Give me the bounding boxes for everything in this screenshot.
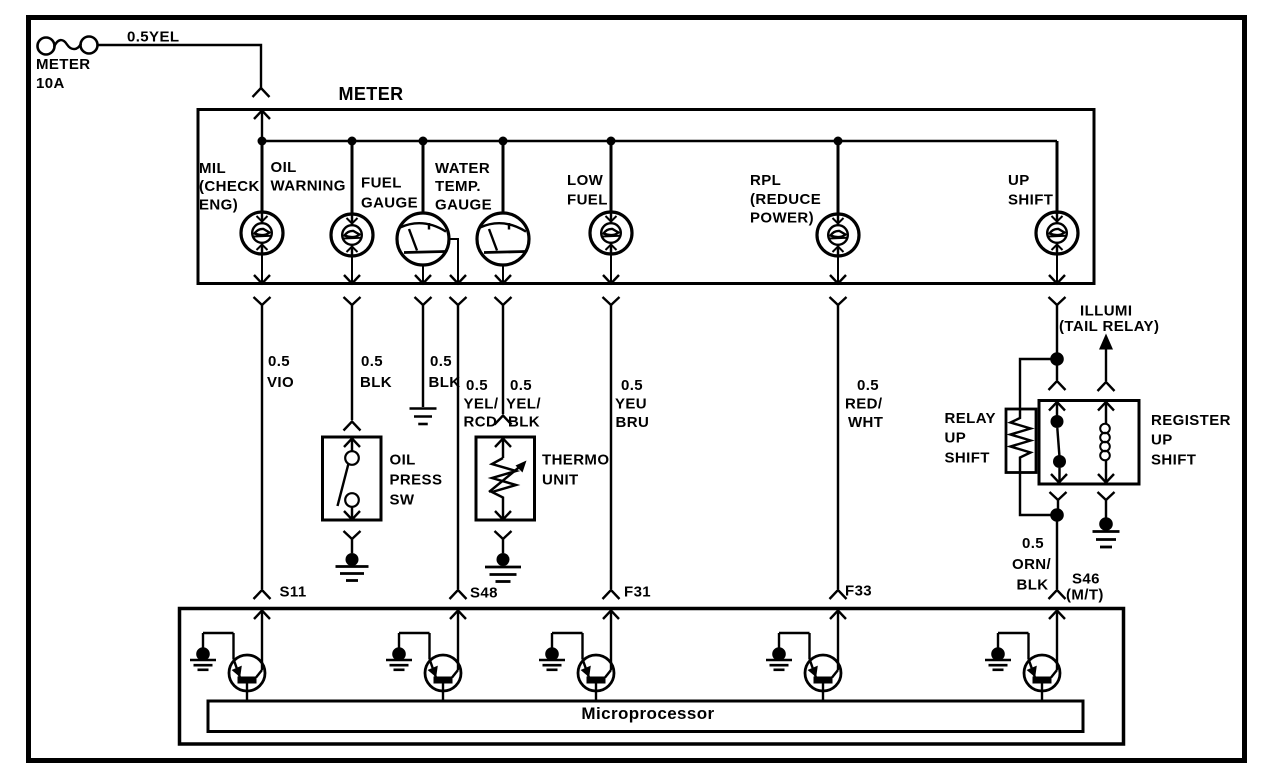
svg-text:F33: F33 [845, 583, 872, 600]
svg-text:THERMO: THERMO [542, 452, 609, 469]
svg-text:SHIFT: SHIFT [945, 449, 990, 466]
svg-text:RCD: RCD [464, 414, 498, 431]
svg-text:0.5: 0.5 [510, 377, 532, 394]
svg-text:RELAY: RELAY [945, 410, 996, 427]
svg-text:UP: UP [1008, 172, 1030, 189]
svg-text:F31: F31 [624, 584, 651, 601]
svg-text:0.5: 0.5 [268, 353, 290, 370]
svg-text:LOW: LOW [567, 172, 604, 189]
svg-text:SHIFT: SHIFT [1151, 452, 1196, 469]
svg-text:S46: S46 [1072, 571, 1100, 588]
svg-text:OIL: OIL [390, 452, 416, 469]
svg-text:BLK: BLK [429, 374, 461, 391]
svg-text:Microprocessor: Microprocessor [581, 704, 714, 723]
svg-text:BRU: BRU [616, 414, 650, 431]
svg-text:UNIT: UNIT [542, 472, 579, 489]
svg-text:YEL/: YEL/ [506, 396, 541, 413]
svg-text:RED/: RED/ [845, 396, 883, 413]
svg-text:BLK: BLK [360, 374, 392, 391]
svg-text:10A: 10A [36, 75, 65, 92]
svg-text:MIL: MIL [199, 160, 226, 177]
svg-text:METER: METER [36, 56, 91, 73]
svg-text:ENG): ENG) [199, 196, 238, 213]
svg-text:GAUGE: GAUGE [435, 196, 492, 213]
svg-text:(TAIL RELAY): (TAIL RELAY) [1059, 318, 1159, 335]
svg-text:GAUGE: GAUGE [361, 195, 418, 212]
svg-text:0.5: 0.5 [621, 377, 643, 394]
svg-text:FUEL: FUEL [567, 192, 608, 209]
svg-text:OIL: OIL [271, 159, 297, 176]
svg-text:BLK: BLK [508, 414, 540, 431]
svg-text:0.5: 0.5 [361, 353, 383, 370]
svg-text:WATER: WATER [435, 160, 490, 177]
svg-text:S48: S48 [470, 585, 498, 602]
svg-text:RPL: RPL [750, 172, 781, 189]
svg-text:YEL/: YEL/ [464, 396, 499, 413]
svg-text:FUEL: FUEL [361, 175, 402, 192]
svg-text:WHT: WHT [848, 414, 883, 431]
svg-text:ILLUMI: ILLUMI [1080, 302, 1132, 319]
svg-text:WARNING: WARNING [271, 178, 346, 195]
svg-text:VIO: VIO [267, 374, 294, 391]
svg-text:0.5YEL: 0.5YEL [127, 29, 179, 46]
svg-text:REGISTER: REGISTER [1151, 412, 1231, 429]
svg-text:PRESS: PRESS [390, 472, 443, 489]
svg-text:BLK: BLK [1017, 577, 1049, 594]
svg-text:(REDUCE: (REDUCE [750, 191, 821, 208]
svg-text:ORN/: ORN/ [1012, 556, 1052, 573]
svg-text:0.5: 0.5 [430, 353, 452, 370]
svg-text:YEU: YEU [615, 396, 647, 413]
svg-text:UP: UP [945, 430, 967, 447]
svg-text:0.5: 0.5 [466, 377, 488, 394]
svg-text:UP: UP [1151, 432, 1173, 449]
svg-text:0.5: 0.5 [1022, 535, 1044, 552]
svg-text:(CHECK: (CHECK [199, 178, 260, 195]
svg-text:SW: SW [390, 492, 415, 509]
svg-text:S11: S11 [280, 584, 307, 601]
svg-text:SHIFT: SHIFT [1008, 192, 1053, 209]
svg-text:(M/T): (M/T) [1066, 587, 1104, 604]
svg-text:0.5: 0.5 [857, 377, 879, 394]
svg-text:METER: METER [339, 84, 404, 104]
svg-text:TEMP.: TEMP. [435, 178, 481, 195]
svg-text:POWER): POWER) [750, 210, 814, 227]
